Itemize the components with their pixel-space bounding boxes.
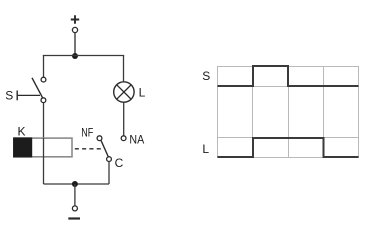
switch S xyxy=(5,77,46,102)
wire xyxy=(74,33,76,56)
wire xyxy=(108,162,110,184)
contact NA xyxy=(121,133,144,147)
dashed mechanical link xyxy=(75,148,104,150)
svg-text:L: L xyxy=(139,86,146,100)
timing diagram grid xyxy=(217,66,359,158)
wire through coil xyxy=(43,138,45,184)
+ supply terminal xyxy=(71,15,79,32)
svg-text:S: S xyxy=(5,89,13,103)
svg-text:K: K xyxy=(17,125,25,139)
wire xyxy=(43,55,45,77)
wire xyxy=(123,103,125,136)
- supply terminal xyxy=(68,206,80,219)
wire xyxy=(74,184,76,206)
waveform L xyxy=(218,138,359,157)
svg-text:NA: NA xyxy=(129,133,144,147)
node junction bottom xyxy=(72,181,78,187)
wire xyxy=(43,55,124,57)
svg-text:L: L xyxy=(202,142,209,156)
svg-text:S: S xyxy=(202,69,210,83)
lamp L xyxy=(114,82,146,102)
relay coil K xyxy=(13,125,72,158)
waveform S xyxy=(218,66,359,86)
relay contact blade C xyxy=(101,141,123,170)
svg-text:C: C xyxy=(115,156,124,170)
wire xyxy=(43,103,45,138)
node junction top xyxy=(72,53,78,59)
wire right branch xyxy=(123,55,125,81)
wire bottom horizontal xyxy=(44,183,110,185)
contact NF xyxy=(81,125,102,140)
svg-text:NF: NF xyxy=(81,125,93,139)
